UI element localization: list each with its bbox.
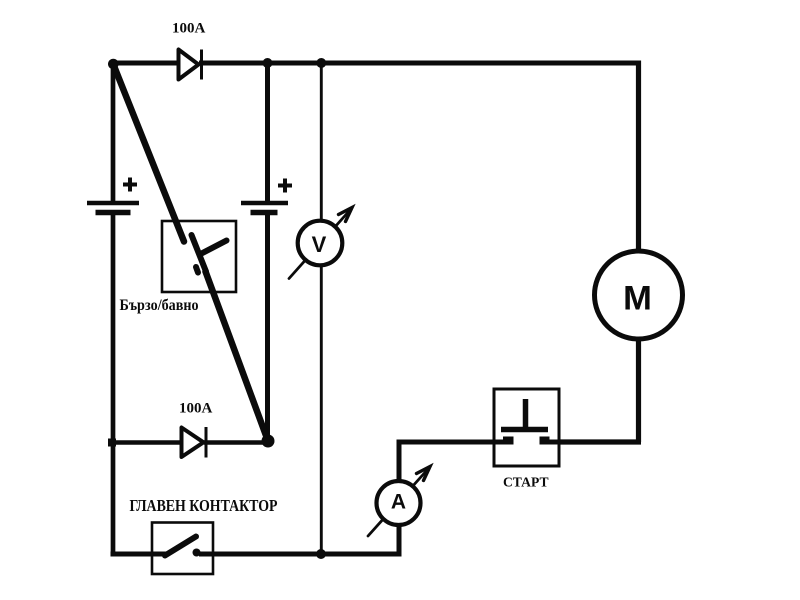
- main contactor K1 fixed contact dot: [193, 549, 201, 557]
- switch S1 lower contact blob: [196, 267, 198, 273]
- wire start button S2 right contact lead: [540, 440, 560, 445]
- wire top bus right segment (diode D1 cathode to top-right corner): [199, 61, 641, 66]
- wire ammeter branch vertical upper: [397, 440, 402, 481]
- voltmeter V1 pointer arrow: [289, 208, 352, 279]
- node E junction (voltmeter tap on bottom bus): [316, 549, 326, 559]
- svg-text:100A: 100A: [179, 401, 213, 417]
- svg-text:M: M: [623, 280, 652, 318]
- wire top bus left segment (node A to diode D1 anode): [111, 61, 180, 66]
- wire middle vertical upper (node B to battery B2 positive plate): [265, 63, 270, 201]
- node C junction (top voltmeter tap): [316, 58, 326, 68]
- svg-text:A: A: [391, 491, 406, 514]
- start button S2 actuator bar: [501, 427, 548, 433]
- wire right vertical drop to motor M1 top: [636, 61, 641, 253]
- wire diode D2 row right segment (diode D2 cathode to node D): [204, 440, 268, 445]
- start button S2 enclosure box: [494, 389, 559, 466]
- ammeter A1 body circle: [377, 481, 421, 525]
- wire ammeter branch vertical lower: [397, 526, 402, 556]
- wire start button S2 left contact to ammeter corner: [399, 440, 513, 445]
- voltmeter V1 body circle: [298, 221, 343, 266]
- switch S1 wire lower diagonal (to node D): [206, 272, 269, 442]
- wire bottom bus right segment (contactor K1 to ammeter branch): [199, 552, 402, 557]
- wire bottom bus left segment (left bus to contactor K1 blade): [111, 552, 167, 557]
- diode D2 cathode bar: [205, 427, 208, 458]
- switch S1 wire upper diagonal (node A to blade pivot): [113, 64, 184, 242]
- switch S1 enclosure box: [162, 221, 236, 292]
- battery B1 positive plate (long): [87, 201, 139, 206]
- node D junction (diode D2 / switch S1 / battery B2 meet): [262, 435, 275, 448]
- switch S1 lever blade: [192, 235, 207, 272]
- battery B1 negative plate (short): [96, 210, 131, 216]
- main contactor K1 enclosure box: [152, 523, 213, 575]
- start button S2 plunger stem: [523, 399, 529, 429]
- diode D1 triangle: [179, 50, 199, 80]
- node F junction (left bus / diode D2 row): [108, 439, 116, 447]
- wire voltmeter branch lower (voltmeter V1 to node E on bottom bus): [320, 266, 323, 554]
- switch S1 lever arm: [201, 241, 227, 255]
- ammeter A1 pointer arrow: [368, 467, 430, 537]
- motor M1 body circle: [595, 251, 683, 339]
- battery B1 plus sign: [123, 178, 137, 192]
- start button S2 right fixed contact: [540, 437, 550, 445]
- node A junction (top left): [108, 59, 119, 70]
- diode D2 triangle: [182, 428, 204, 458]
- battery B2 positive plate (long): [241, 201, 288, 206]
- battery B2 negative plate (short): [251, 210, 278, 216]
- wire left bus lower (battery B1 negative plate to bottom bus): [111, 215, 116, 557]
- main contactor K1 blade: [165, 537, 196, 556]
- battery B2 plus sign: [278, 179, 292, 193]
- svg-text:100A: 100A: [172, 21, 206, 37]
- node B junction (top middle): [263, 58, 273, 68]
- wire diode D2 row left segment (left bus to diode D2 anode): [111, 440, 184, 445]
- svg-text:V: V: [312, 232, 327, 257]
- wire motor M1 bottom to corner and left to start button S2: [559, 338, 641, 442]
- svg-text:СТАРТ: СТАРТ: [503, 476, 549, 491]
- svg-text:Бързо/бавно: Бързо/бавно: [120, 297, 199, 314]
- start button S2 left fixed contact: [503, 437, 514, 445]
- svg-text:ГЛАВЕН КОНТАКТОР: ГЛАВЕН КОНТАКТОР: [130, 496, 278, 515]
- diode D1 cathode bar: [200, 50, 203, 80]
- wire left bus upper (node A to battery B1 positive plate): [111, 61, 116, 201]
- wire voltmeter branch upper (node C to voltmeter V1): [320, 63, 323, 221]
- wire middle vertical lower (battery B2 negative plate to node D): [265, 215, 270, 441]
